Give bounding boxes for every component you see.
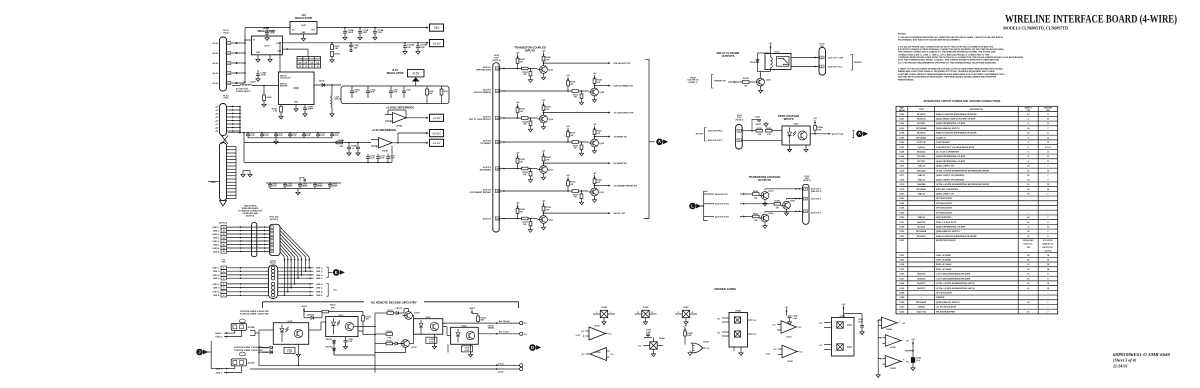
svg-text:QUAD ANALOG SWITCH: QUAD ANALOG SWITCH [936, 230, 960, 233]
svg-text:34,44,57,67,: 34,44,57,67, [1042, 243, 1054, 246]
svg-text:GND: GND [211, 182, 216, 184]
+5VDC output box [426, 132, 428, 134]
REDENT bracket [851, 55, 853, 71]
ground of U108 [295, 105, 297, 108]
svg-text:R1016: R1016 [334, 53, 339, 55]
svg-text:+14.2V: +14.2V [212, 42, 219, 45]
svg-text:-8.6V: -8.6V [412, 72, 420, 76]
svg-text:LINE 1-: LINE 1- [213, 230, 220, 232]
svg-text:OUTPUTS: OUTPUTS [722, 54, 735, 58]
svg-text:MC14052: MC14052 [917, 132, 927, 135]
svg-text:5: 5 [223, 284, 224, 286]
svg-text:AUX OUT 2: AUX OUT 2 [811, 198, 821, 201]
svg-text:LINE 1-: LINE 1- [316, 271, 323, 273]
svg-text:N.C.: N.C. [819, 345, 823, 347]
svg-text:JU100B: JU100B [247, 327, 255, 329]
svg-text:(SHEET 1): (SHEET 1) [689, 82, 698, 84]
svg-text:LINE 3-: LINE 3- [316, 288, 323, 290]
svg-text:MC14066B: MC14066B [916, 301, 927, 304]
wire +2.2V output [392, 142, 428, 144]
svg-text:OCTAL 3-STATE NONINVERTING LAT: OCTAL 3-STATE NONINVERTING LATCH [936, 287, 975, 290]
unused op-amp U109A [882, 317, 898, 329]
svg-text:LINE 1+: LINE 1+ [316, 268, 324, 270]
P100 pin ladder 15 [227, 191, 237, 193]
output row AUX OUT 3 INT [704, 216, 714, 218]
svg-text:LINE 2+: LINE 2+ [216, 336, 224, 338]
svg-text:4: 4 [223, 277, 224, 280]
DC-DC converter U108 box [279, 72, 315, 105]
svg-text:C198: C198 [406, 90, 410, 92]
svg-text:EXT PTT: EXT PTT [696, 134, 705, 136]
base bleed resistor of Q111 [529, 222, 532, 226]
svg-text:256K x 8 FLASH: 256K x 8 FLASH [936, 268, 952, 271]
transistor Q106 [761, 214, 769, 222]
svg-text:AUX OUT 2 INT: AUX OUT 2 INT [715, 203, 730, 206]
svg-text:0.1UF: 0.1UF [250, 135, 255, 137]
emitter ground of Q111 [543, 223, 545, 225]
svg-text:N.C.: N.C. [800, 352, 804, 354]
transistor Q121 [540, 66, 548, 74]
svg-text:LINE 2+: LINE 2+ [213, 275, 221, 277]
inductor L100 [331, 85, 333, 94]
wire EXT PTT INT out [810, 133, 830, 135]
svg-text:0.1UF: 0.1UF [334, 135, 339, 137]
svg-text:N.C.: N.C. [582, 354, 586, 356]
resistor R1015 divider [331, 42, 333, 44]
P100 pin ladder 16 [227, 194, 237, 196]
svg-text:LM2931: LM2931 [917, 147, 925, 149]
capacitor C1084 [303, 107, 307, 109]
svg-text:N.C.: N.C. [609, 334, 613, 336]
svg-text:2. TO ALLOW PHONE LINE CONNEC: 2. TO ALLOW PHONE LINE CONNECTIONS AT BO… [898, 45, 994, 48]
resistor R1227 series [572, 141, 579, 144]
transistor Q1107 [402, 340, 410, 348]
svg-text:30: 30 [804, 198, 806, 200]
svg-text:13: 13 [637, 312, 639, 314]
svg-text:3. MANY OF THE CUSTOMER-DEFIN: 3. MANY OF THE CUSTOMER-DEFINED INPUTS A… [898, 67, 1004, 70]
grounds under U240 [789, 145, 791, 148]
svg-text:220UH: 220UH [250, 82, 256, 84]
ground triangle U115B [689, 351, 691, 353]
svg-text:GND: GND [302, 32, 307, 34]
wire opto lower [741, 139, 782, 141]
svg-text:256K x 8 FLASH: 256K x 8 FLASH [936, 263, 952, 266]
svg-text:TELCO: TELCO [270, 263, 277, 265]
svg-text:0.1UF: 0.1UF [370, 158, 375, 160]
svg-text:1: 1 [596, 312, 597, 314]
svg-text:0.1UF: 0.1UF [793, 318, 798, 320]
svg-text:NOTES:: NOTES: [898, 34, 907, 36]
svg-text:MC3302: MC3302 [917, 227, 925, 229]
P100 pin ladder 12 [227, 181, 237, 183]
svg-text:LINE 4+: LINE 4+ [316, 291, 324, 294]
op-amp U110B [379, 138, 393, 149]
svg-text:OCTAL 3-STATE NONINVERTING BUF: OCTAL 3-STATE NONINVERTING BUFFER/LINE D… [936, 183, 990, 186]
svg-text:R1088: R1088 [339, 140, 345, 142]
svg-text:U110D: U110D [595, 352, 601, 354]
resistor R1108 [362, 316, 365, 322]
svg-text:CR1107: CR1107 [396, 308, 403, 310]
wire +5V rail [317, 27, 428, 29]
resistor R1231 series [522, 67, 529, 70]
svg-text:63,66,112,: 63,66,112, [1024, 244, 1034, 246]
resistor R1217 series [522, 217, 529, 220]
svg-text:QUAD SINGLE SUPPLY HI-PERF OP: QUAD SINGLE SUPPLY HI-PERF OP AMP [936, 117, 976, 120]
svg-text:N.C.: N.C. [581, 331, 585, 333]
capacitor bank row near +2.2V ref [367, 162, 369, 164]
emitter ground Q116 [760, 86, 762, 89]
svg-text:ON CABINET REPEAT INT: ON CABINET REPEAT INT [614, 185, 638, 188]
optoisolator U123 [326, 317, 358, 337]
svg-text:LINE 4-: LINE 4- [316, 294, 323, 297]
svg-text:DC-TO-DC CONVERTER: DC-TO-DC CONVERTER [936, 151, 960, 153]
svg-text:11: 11 [678, 312, 680, 314]
svg-text:N.C.: N.C. [799, 327, 803, 329]
twisted-pair cross between P100 segments [222, 136, 229, 145]
svg-text:AUX IN 7: AUX IN 7 [483, 217, 491, 220]
capacitor C1095 [366, 90, 370, 92]
capacitor C1069 [256, 73, 260, 75]
svg-text:(FOR THE INTERNATIONAL MODEL C: (FOR THE INTERNATIONAL MODEL CLN6897). T… [898, 59, 1000, 62]
svg-text:Q1108: Q1108 [414, 312, 420, 314]
unused OR gate U115B [692, 343, 703, 353]
svg-text:AND MAY BE RE-ASSIGNED AS NECE: AND MAY BE RE-ASSIGNED AS NECESSARY. THE… [898, 76, 997, 79]
svg-text:LOW DROPOUT VOLTAGE REGULATOR: LOW DROPOUT VOLTAGE REGULATOR [936, 146, 975, 149]
jumper JU100A [231, 359, 246, 366]
svg-text:TX INHIBIT INT: TX INHIBIT INT [614, 137, 628, 139]
wire segment2 trunk [239, 107, 241, 133]
resistor R139B [743, 81, 750, 84]
svg-text:R1126: R1126 [387, 341, 392, 343]
svg-text:A: A [658, 139, 661, 144]
resistor R1253 [753, 215, 760, 218]
wire +2.2V reference feed [244, 142, 371, 144]
wire +14.2V trunk [244, 28, 246, 84]
svg-text:(NOTE 2): (NOTE 2) [246, 215, 254, 217]
filter module box [341, 86, 449, 104]
svg-text:4 OHM/2 SELECT: 4 OHM/2 SELECT [236, 90, 252, 93]
svg-text:LINE 3+: LINE 3+ [213, 241, 221, 243]
svg-text:N.C.: N.C. [717, 332, 721, 334]
grounds of U107 [257, 55, 259, 58]
base bleed resistor of Q119 [529, 121, 532, 125]
svg-text:ANALOG MULTIPLEXER/DEMULTIPLEX: ANALOG MULTIPLEXER/DEMULTIPLEXER [936, 235, 977, 238]
flag symbol lower jumper [240, 352, 245, 356]
svg-text:0.1UF: 0.1UF [261, 75, 267, 77]
P100 pin ladder 7 [227, 165, 237, 167]
svg-text:CODEC IC: CODEC IC [936, 137, 946, 139]
svg-text:A/C-3.2mA: A/C-3.2mA [499, 331, 509, 334]
svg-text:QUAD DIFFERENTIAL OP AMP: QUAD DIFFERENTIAL OP AMP [936, 122, 966, 125]
ground of U147 [303, 34, 305, 37]
svg-text:(DUPLEX ENABLE): (DUPLEX ENABLE) [474, 91, 492, 94]
svg-text:MC14066B: MC14066B [916, 230, 927, 233]
svg-text:0.1UF: 0.1UF [380, 158, 385, 160]
svg-text:MC145406: MC145406 [916, 136, 927, 139]
emitter ground of Q120 [594, 96, 596, 98]
svg-text:DUAL J-K FLIP-FLOP: DUAL J-K FLIP-FLOP [936, 221, 957, 224]
emitter ground Q106 [764, 222, 766, 224]
svg-text:TRI-STATE BUFFER: TRI-STATE BUFFER [936, 310, 955, 313]
svg-text:6800PF: 6800PF [302, 186, 308, 188]
svg-text:R1125: R1125 [387, 331, 392, 333]
svg-text:PARENTHESES.: PARENTHESES. [898, 79, 914, 82]
svg-text:CR-06: CR-06 [319, 81, 324, 83]
flag symbol upper jumper [240, 319, 245, 323]
svg-text:220PF: 220PF [308, 109, 314, 111]
svg-text:12: 12 [651, 312, 653, 314]
svg-text:R1156: R1156 [330, 305, 335, 307]
svg-text:74HC138: 74HC138 [917, 273, 926, 276]
P100 pin ladder 6 [227, 162, 237, 164]
wire from flag J down [210, 341, 212, 369]
svg-text:1: 1 [272, 227, 273, 229]
ground under U125 [298, 344, 300, 352]
svg-text:OUTPUTS: OUTPUTS [758, 178, 771, 182]
svg-text:1-OF-8 DECODER/DEMULTIPLEXER: 1-OF-8 DECODER/DEMULTIPLEXER [936, 274, 971, 276]
svg-text:1-OF-8 DECODER/DEMULTIPLEXER: 1-OF-8 DECODER/DEMULTIPLEXER [936, 278, 971, 280]
svg-text:+14.2V: +14.2V [212, 72, 219, 75]
P100 pin ladder 13 [227, 185, 237, 187]
P100 pin ladder 14 [227, 188, 237, 190]
svg-text:R1246: R1246 [775, 200, 780, 203]
svg-text:LINE 2+: LINE 2+ [316, 275, 324, 277]
svg-text:+2.5mA: +2.5mA [497, 371, 504, 374]
svg-text:N.C.: N.C. [773, 325, 777, 327]
transistor Q112 [591, 188, 599, 196]
svg-text:2: 2 [877, 320, 878, 322]
svg-text:6800PF: 6800PF [287, 186, 293, 188]
wire AUX IN 5 to base network [500, 168, 522, 170]
svg-text:R100H: R100H [315, 59, 321, 61]
resistor network R100 [297, 57, 321, 69]
svg-text:AUX IN 8 OPTO-: AUX IN 8 OPTO- [708, 139, 723, 142]
base bleed resistor of Q121 [529, 72, 532, 76]
P100 pin ladder 8 [227, 168, 237, 170]
svg-text:+2.0V: +2.0V [432, 116, 441, 120]
svg-text:QUAD DIFFERENTIAL OP AMP: QUAD DIFFERENTIAL OP AMP [936, 226, 966, 229]
svg-text:POSITION 4-WIRE 1 SELECTED: POSITION 4-WIRE 1 SELECTED [240, 313, 269, 316]
svg-text:QUAD ANALOG SWITCH: QUAD ANALOG SWITCH [936, 301, 960, 304]
svg-text:N.C.: N.C. [819, 323, 823, 325]
svg-text:8-BIT A/D CONVERTER: 8-BIT A/D CONVERTER [936, 188, 959, 191]
transistor Q117 [540, 166, 548, 174]
svg-text:MC3302: MC3302 [917, 123, 925, 125]
svg-text:OPTOISOLATOR: OPTOISOLATOR [936, 207, 952, 210]
svg-text:+2.3mA: +2.3mA [497, 362, 504, 365]
svg-text:74AC244: 74AC244 [917, 169, 926, 172]
base bleed resistor of Q120 [580, 94, 583, 98]
svg-text:L: L [691, 203, 694, 208]
U107 ADJ feedback wire [283, 48, 309, 50]
transistor Q1108 [405, 312, 413, 320]
resistor R1228 series [522, 117, 529, 120]
svg-text:29: 29 [804, 211, 806, 213]
svg-text:40: 40 [738, 130, 740, 133]
svg-text:+14.2V: +14.2V [212, 52, 219, 55]
svg-text:R1245: R1245 [753, 190, 758, 193]
svg-text:U115B: U115B [703, 341, 709, 343]
P100 pin ladder 11 [227, 178, 237, 180]
svg-text:HEX INVERTER: HEX INVERTER [936, 217, 951, 219]
emitter ground of Q121 [543, 73, 545, 75]
svg-text:LINE 3-: LINE 3- [213, 244, 220, 246]
svg-text:6: 6 [223, 287, 224, 289]
svg-text:MICROPROCESSOR: MICROPROCESSOR [936, 240, 956, 242]
flag J from sheet [196, 349, 203, 356]
matrix vertical drops [283, 257, 285, 295]
capacitor C1098 [357, 142, 359, 144]
svg-text:TYPE: TYPE [919, 109, 925, 111]
svg-text:+2.2V: +2.2V [432, 141, 441, 145]
svg-text:CUSTOM: CUSTOM [917, 142, 926, 144]
svg-text:TX CODE DETECT INT: TX CODE DETECT INT [614, 113, 635, 115]
transistor Q118 [591, 139, 599, 147]
svg-text:(FAILSOFT): (FAILSOFT) [811, 190, 822, 193]
svg-text:8-POSITION ORANGE SCREW TERMIN: 8-POSITION ORANGE SCREW TERMINAL CONNECT… [898, 48, 1004, 51]
svg-text:EXT PTT INT: EXT PTT INT [832, 134, 844, 136]
svg-text:OCTAL 3-STATE NONINVERTING LAT: OCTAL 3-STATE NONINVERTING LATCH [936, 282, 975, 285]
resistor R1226 series [522, 167, 529, 170]
svg-text:N.C.: N.C. [611, 354, 615, 356]
base bleed resistor of Q112 [580, 194, 583, 198]
svg-text:LINE 4-: LINE 4- [213, 294, 220, 297]
transistor Q120 [591, 88, 599, 96]
svg-text:-: - [390, 114, 391, 117]
svg-text:18,28,39,42,: 18,28,39,42, [1023, 239, 1035, 242]
svg-text:U101D: U101D [787, 361, 793, 363]
svg-text:MC14066B: MC14066B [916, 127, 927, 130]
connector P100 segment 3 [220, 143, 227, 201]
wire AUX IN 1 to base network [500, 68, 522, 70]
svg-text:(NOTE 3): (NOTE 3) [736, 119, 744, 121]
svg-text:1N4004: 1N4004 [488, 327, 494, 330]
svg-text:QUAD 2-INPUT OR: QUAD 2-INPUT OR [936, 192, 954, 195]
svg-text:LINE 1+: LINE 1+ [216, 333, 224, 335]
svg-text:C1222: C1222 [755, 117, 760, 119]
svg-text:0.1uF: 0.1uF [916, 360, 920, 362]
svg-text:Q1107: Q1107 [411, 347, 417, 349]
bypass capacitor bank row 2 [266, 182, 341, 184]
svg-text:N.C.: N.C. [707, 348, 711, 350]
inductor L10 feed from P100 [232, 85, 240, 87]
svg-text:0.1UF: 0.1UF [429, 341, 434, 343]
svg-text:N.C.: N.C. [754, 334, 758, 336]
decode interconnect wires [358, 330, 363, 332]
svg-text:39: 39 [738, 140, 740, 142]
svg-text:CR1104: CR1104 [326, 346, 333, 349]
svg-text:LM7805: LM7805 [917, 307, 925, 309]
svg-text:LINE 1+: LINE 1+ [213, 268, 221, 270]
svg-text:P201: P201 [222, 262, 226, 264]
svg-text:R100D: R100D [304, 59, 310, 61]
svg-text:6: 6 [272, 244, 273, 246]
svg-text:74AC32: 74AC32 [917, 174, 925, 177]
svg-text:41: 41 [821, 65, 823, 68]
svg-text:QUAD 2-INPUT OR (UNUSED): QUAD 2-INPUT OR (UNUSED) [936, 178, 964, 181]
svg-text:LINE 3+: LINE 3+ [316, 284, 324, 286]
base bleed resistor of Q118 [580, 145, 583, 149]
svg-text:POSITION 4-WIRE 2 SELECTED: POSITION 4-WIRE 2 SELECTED [240, 310, 269, 313]
svg-text:220UH: 220UH [335, 99, 342, 101]
svg-text:LINE 3-: LINE 3- [213, 288, 220, 290]
svg-text:CONNECTIONS (LINE 1+, LINE 1-,: CONNECTIONS (LINE 1+, LINE 1-, LINE 2+, … [898, 53, 990, 56]
wire +5VDC line [398, 132, 428, 134]
svg-text:U109B: U109B [396, 126, 403, 128]
svg-text:U129D: U129D [643, 307, 649, 309]
ground of cap bank 2 [297, 189, 299, 191]
resistor R1246 [774, 203, 781, 206]
svg-text:OPTOISOLATOR: OPTOISOLATOR [936, 197, 952, 200]
svg-text:MC145041: MC145041 [916, 188, 927, 191]
backplane oval connector [252, 222, 257, 256]
svg-text:ANALOG MULTIPLEXER/DEMULTIPLEX: ANALOG MULTIPLEXER/DEMULTIPLEXER [936, 132, 977, 135]
svg-text:0.1UF: 0.1UF [287, 352, 292, 354]
svg-text:LINE 3+: LINE 3+ [213, 284, 221, 286]
svg-text:74HC138: 74HC138 [917, 277, 926, 280]
unused op-amp U110D reversed [590, 348, 607, 361]
wire AUX IN 2 to base network [500, 90, 572, 92]
transistor Q100 [761, 192, 769, 200]
resistor R190 [426, 89, 429, 95]
svg-text:OPTOISOLATOR: OPTOISOLATOR [936, 211, 952, 214]
svg-text:R139B: R139B [743, 78, 749, 80]
svg-text:10: 10 [692, 312, 694, 314]
svg-text:AUX OUT 7 N.O.: AUX OUT 7 N.O. [828, 65, 843, 68]
resistor R1087 [280, 107, 283, 113]
svg-text:0.1UF: 0.1UF [390, 158, 395, 160]
svg-text:R1173: R1173 [388, 310, 393, 312]
svg-text:LINE 2-: LINE 2- [213, 237, 220, 239]
svg-text:LINE 2-: LINE 2- [316, 278, 323, 280]
svg-text:OCTAL 3-STATE NONINVERTING BUF: OCTAL 3-STATE NONINVERTING BUFFER/LINE D… [936, 169, 990, 172]
svg-text:0.1UF: 0.1UF [278, 135, 283, 137]
svg-text:U104B: U104B [735, 309, 741, 312]
bracket lower lines [327, 283, 329, 296]
svg-text:2: 2 [611, 312, 612, 314]
svg-text:N.C.: N.C. [774, 349, 778, 351]
svg-text:SPE FAILSOFT INT: SPE FAILSOFT INT [614, 62, 632, 65]
svg-text:A/C-18.2mA: A/C-18.2mA [499, 320, 510, 323]
svg-text:REDENT INT: REDENT INT [715, 81, 727, 83]
connector relay outputs [819, 48, 826, 76]
svg-text:+5V: +5V [433, 26, 440, 30]
svg-text:EMITTER: EMITTER [280, 86, 288, 88]
svg-text:CR1106: CR1106 [326, 339, 333, 341]
svg-text:GND: GND [256, 52, 261, 54]
svg-text:MC3302: MC3302 [917, 156, 925, 158]
svg-text:MC14052: MC14052 [917, 235, 927, 238]
hook above cap bank 2 [300, 178, 304, 181]
svg-text:5: 5 [272, 241, 273, 243]
transistor Q119 [540, 115, 548, 123]
svg-text:+2.2V REFERENCE: +2.2V REFERENCE [372, 128, 397, 132]
resistor R1156 [304, 311, 322, 313]
svg-text:(Sheet 3 of 4): (Sheet 3 of 4) [1113, 358, 1137, 363]
ground of cap bank 1 [275, 138, 277, 140]
capacitor C171B [359, 27, 361, 29]
svg-text:2mm PIN SPACING REQUIREMENTS S: 2mm PIN SPACING REQUIREMENTS SPECIFIED B… [898, 61, 997, 64]
wire fan from P500 to matrix [280, 227, 309, 257]
collector wire Q100 [764, 189, 766, 190]
wire P100 to U107 input [245, 39, 252, 41]
svg-text:N.C.: N.C. [754, 320, 758, 322]
svg-text:D: D [531, 345, 534, 350]
transistor Q111 [540, 216, 548, 224]
svg-text:L10: L10 [243, 82, 246, 84]
svg-text:74AC04: 74AC04 [917, 216, 925, 219]
svg-text:R191: R191 [444, 91, 448, 93]
